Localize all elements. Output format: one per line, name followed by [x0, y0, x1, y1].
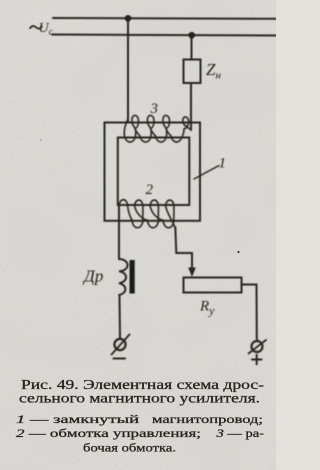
wire: jog right to arrow — [176, 252, 192, 254]
label ~Uc : tilde drawn as path — [30, 26, 42, 29]
leader line for label 1 — [194, 166, 219, 180]
svg-text:2: 2 — [146, 182, 154, 198]
magnetic core outer rectangle — [105, 123, 201, 221]
wire: Ry right side to plus terminal — [242, 285, 257, 342]
winding 3 (working winding) coil — [124, 115, 190, 142]
scan speck — [237, 251, 239, 253]
scan speck — [40, 139, 41, 140]
minus sign — [114, 358, 126, 360]
wire: AC supply rail top — [53, 17, 276, 20]
winding 2 (control winding) coil — [119, 200, 175, 228]
wire: winding 2 right end down — [175, 227, 176, 253]
svg-text:3 — ра-: 3 — ра- — [215, 428, 264, 440]
wire: winding 2 left end down to choke — [118, 206, 120, 259]
wire: choke to minus terminal — [119, 295, 122, 339]
terminal circle minus — [114, 339, 125, 350]
arrowhead of control arrow — [188, 268, 196, 278]
junction dot on bottom rail — [188, 32, 195, 39]
terminal circle plus — [252, 341, 263, 352]
choke core bar — [130, 260, 135, 294]
magnetic core inner rectangle — [118, 138, 190, 206]
svg-text:сельного магнитного усилителя.: сельного магнитного усилителя. — [19, 390, 260, 405]
slash through minus terminal — [112, 335, 130, 355]
wire: Zn to winding 3 right end — [190, 83, 192, 130]
plus sign — [252, 355, 262, 364]
svg-text:Др: Др — [82, 267, 103, 286]
slash through plus terminal — [249, 340, 267, 354]
wire: left drop from top rail to winding 3 — [127, 18, 129, 122]
resistor Zn body — [184, 60, 201, 84]
arrow stem onto Ry — [191, 253, 193, 269]
svg-text:бочая обмотка.: бочая обмотка. — [83, 443, 176, 455]
svg-text:3: 3 — [150, 101, 159, 117]
rheostat Ry body — [184, 278, 242, 293]
svg-text:магнитопровод;: магнитопровод; — [152, 414, 263, 426]
wire: AC supply rail bottom — [52, 35, 276, 36]
wire: drop from bottom rail to Zn — [191, 35, 193, 60]
choke Dr coil — [119, 259, 128, 295]
scan speck — [222, 430, 224, 432]
svg-text:1 — замкнутый: 1 — замкнутый — [16, 414, 139, 426]
junction dot on top rail — [125, 15, 132, 22]
svg-text:2 — обмотка управления;: 2 — обмотка управления; — [16, 428, 201, 440]
svg-text:1: 1 — [219, 156, 227, 172]
